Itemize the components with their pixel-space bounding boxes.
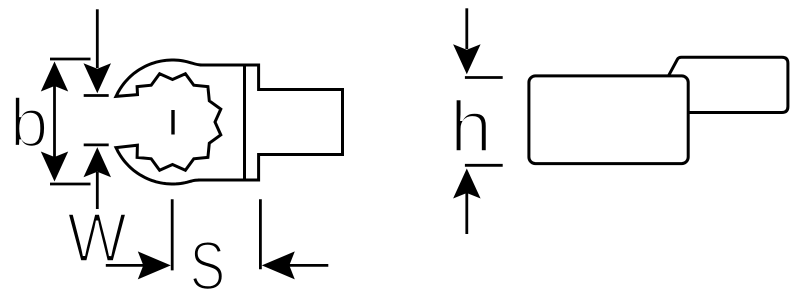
svg-text:b: b bbox=[10, 85, 48, 162]
dimension W: up arrowhead bbox=[84, 147, 112, 177]
dimension S: left (right-pointing) arrowhead bbox=[138, 251, 171, 279]
dimension S: left arrow tail bbox=[106, 264, 145, 267]
dimension h: lower leader line bbox=[465, 193, 468, 234]
svg-text:S: S bbox=[190, 228, 225, 301]
dimension b: bottom extension tick bbox=[50, 183, 91, 186]
dimension W: down arrowhead bbox=[84, 63, 112, 93]
side view: insert body bbox=[529, 76, 688, 164]
dimension S: right arrow tail bbox=[288, 264, 328, 267]
dimension b: vertical line bbox=[53, 80, 56, 163]
dimension S: right extension line bbox=[259, 199, 262, 269]
center mark bbox=[171, 110, 174, 135]
dimension h: down arrowhead bbox=[453, 44, 481, 74]
dimension b: up arrowhead bbox=[41, 62, 68, 92]
dimension b: down arrowhead bbox=[41, 152, 68, 182]
holder plate and tang outline bbox=[198, 65, 343, 180]
dimension W: lower leader line bbox=[96, 172, 99, 209]
svg-text:h: h bbox=[450, 86, 492, 167]
dimension b: top extension tick bbox=[50, 58, 91, 61]
dimension S: left extension line bbox=[171, 199, 174, 270]
dimension h: up arrowhead bbox=[453, 169, 481, 199]
dimension W: bottom extension tick bbox=[84, 143, 109, 146]
ring head outline (open ring with 12-point profile) bbox=[116, 60, 221, 184]
dimension W: upper leader line bbox=[96, 9, 99, 68]
dimension W: top extension tick bbox=[84, 94, 109, 97]
dimension h: bottom extension tick bbox=[465, 164, 503, 167]
plate inner edge line bbox=[243, 65, 246, 180]
dimension h: top extension tick bbox=[465, 76, 503, 79]
side view: rectangular tab bbox=[669, 57, 788, 112]
dimension h: upper leader line bbox=[465, 8, 468, 49]
dimension S: right (left-pointing) arrowhead bbox=[262, 251, 295, 279]
